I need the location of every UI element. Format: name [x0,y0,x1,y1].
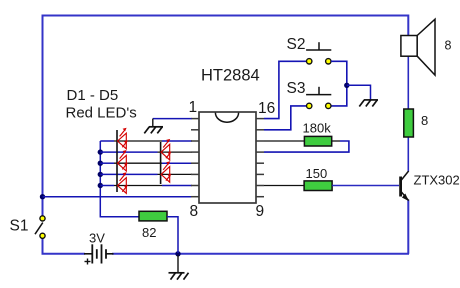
ground near pin1 [144,127,163,134]
wire S1 to battery [43,239,86,254]
switch S2 [306,42,331,64]
svg-text:S2: S2 [287,36,306,53]
wire row pin6 [100,173,192,175]
node left rail pin8 junction [40,194,45,199]
LED D1 [118,128,128,149]
resistor 180k [304,136,331,146]
wire LED bus vertical [100,141,139,217]
transistor Q1 ZTX302 [401,171,409,201]
node bus pin7 [98,183,103,188]
wire R82 to ground node [167,217,178,253]
wire left rail [42,15,44,216]
wire 180k to pin13 [264,141,349,152]
wire speaker to resistor [407,56,409,111]
wire resistor to collector [407,137,409,172]
svg-text:D1 - D5: D1 - D5 [67,87,119,104]
LED D4 [161,161,171,182]
svg-text:16: 16 [258,100,275,117]
wire ground stem bottom [177,255,179,273]
node bus pin4 [98,149,103,154]
svg-text:S1: S1 [10,218,29,235]
LED D3 [118,150,128,171]
node battery/ground junction [175,251,180,256]
wire pin14 to 180k [264,140,304,142]
LED cathode bar right column [160,142,162,184]
wire pin10 to 150 [264,185,304,187]
wire bottom rail [112,253,409,255]
IC left pin stubs 1-8 [191,119,199,197]
wire row pin3 [100,140,192,142]
svg-text:1: 1 [189,99,198,116]
svg-text:180k: 180k [303,120,332,135]
node bus pin6 [98,172,103,177]
svg-text:8: 8 [445,39,452,53]
wire row pin7 [100,185,192,187]
node S2/S3 junction [344,83,349,88]
wire battery left black stub [84,253,92,255]
wire pin8 row [43,196,192,198]
svg-text:150: 150 [306,166,328,181]
wire pin16 to S2 [264,61,307,118]
wire junction to ground [347,85,371,100]
wire top rail V+ [43,15,409,17]
battery B1 3V [85,244,107,264]
wire speaker drop [407,15,409,37]
svg-text:ZTX302: ZTX302 [414,173,460,188]
wire row pin5 [100,162,192,164]
svg-text:9: 9 [256,203,265,220]
ground bottom [169,273,189,280]
LED cathode bar left column [116,130,118,192]
resistor R82 [139,211,167,221]
IC U1 HT2884 body [199,112,256,203]
switch S3 [306,87,331,109]
ground near S3 [359,100,378,107]
switch S1 [35,216,45,239]
wire pin15 to S3 [264,106,307,130]
IC right pin stubs 9-16 [256,119,264,197]
svg-text:HT2884: HT2884 [201,67,260,85]
wire 180k right black [332,140,340,142]
wire 150 to base [332,185,399,187]
svg-text:8: 8 [421,113,428,128]
LED D2 [161,139,171,160]
wire emitter to bottom rail [407,200,409,254]
resistor 150 [304,181,332,191]
wire pin1 to ground [153,118,192,120]
svg-text:Red LED's: Red LED's [66,105,137,122]
wire S2 right to junction [331,61,347,106]
svg-text:82: 82 [142,225,156,240]
svg-text:8: 8 [190,203,199,220]
wire battery right black stub [106,253,114,255]
svg-text:3V: 3V [89,231,105,246]
wire row pin4 [100,151,192,153]
resistor 8 [404,109,414,137]
LED D5 [118,172,128,193]
wire ground stem pin1 [152,119,154,127]
node bus pin5 [98,161,103,166]
speaker LS1 [401,19,435,75]
svg-text:S3: S3 [287,80,306,97]
